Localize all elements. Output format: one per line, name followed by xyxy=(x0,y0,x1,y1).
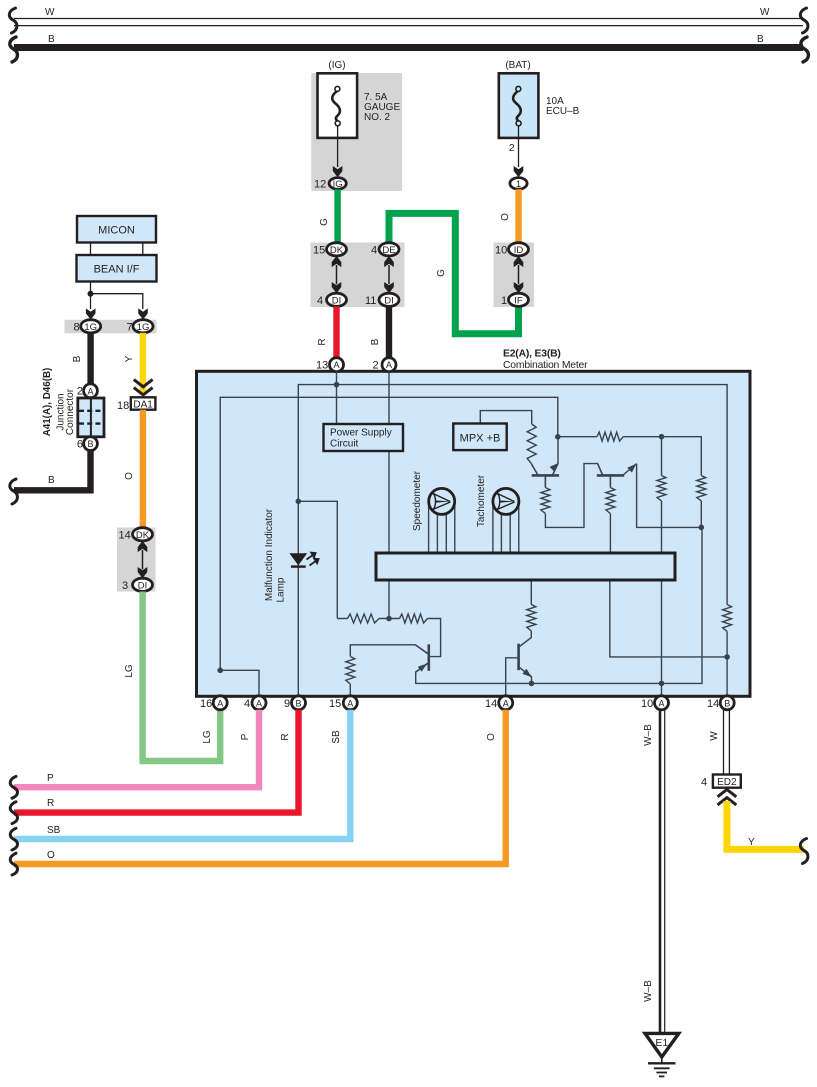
svg-text:P: P xyxy=(47,773,54,784)
wire R5 up to top node xyxy=(661,437,663,476)
svg-text:DK: DK xyxy=(136,530,150,541)
resistor R5 (10A upper) xyxy=(657,476,666,502)
svg-text:B: B xyxy=(757,34,764,45)
wire emitter rail right section xyxy=(532,527,703,683)
svg-text:DI: DI xyxy=(138,581,148,592)
svg-text:A: A xyxy=(217,698,223,708)
svg-text:IF: IF xyxy=(514,296,523,307)
resistor R11 (14B) xyxy=(723,605,732,632)
wire R7 to corner down xyxy=(623,437,701,476)
svg-text:B: B xyxy=(72,355,83,362)
svg-text:B: B xyxy=(724,698,730,708)
svg-text:E1: E1 xyxy=(655,1037,668,1049)
resistor R3 (15A) xyxy=(346,657,355,685)
wire B black to left edge xyxy=(14,451,91,491)
wire R red from 9B to left edge xyxy=(14,710,299,813)
wire O orange from terminal 1 to 10 ID xyxy=(515,189,521,243)
wire Y yellow from ED2 to right edge xyxy=(727,801,804,849)
svg-text:(IG): (IG) xyxy=(328,60,345,71)
pin terminal 14 A xyxy=(499,696,513,710)
resistor R7 (horizontal top) xyxy=(597,432,623,441)
svg-text:B: B xyxy=(48,34,55,45)
svg-text:15: 15 xyxy=(313,245,325,257)
arrow into terminal 1 xyxy=(514,166,524,177)
box BEAN I/F xyxy=(77,255,157,282)
svg-text:12: 12 xyxy=(314,179,326,191)
wire W left break curl xyxy=(9,8,17,33)
double chevron arrow into ED2 xyxy=(718,790,737,805)
svg-text:(BAT): (BAT) xyxy=(505,60,530,71)
svg-text:Y: Y xyxy=(124,355,135,362)
svg-text:2: 2 xyxy=(77,386,83,398)
wire O orange from 14A to left edge xyxy=(14,710,506,864)
wire SB light blue from 15A to left edge xyxy=(14,710,350,839)
svg-text:Power Supply: Power Supply xyxy=(330,428,392,439)
svg-text:4: 4 xyxy=(244,698,250,710)
transistor Q4 emitter wire down to 527 rail xyxy=(637,464,702,528)
svg-text:B: B xyxy=(370,338,381,345)
junction dot rail A x336 xyxy=(334,382,340,388)
terminal oval ID xyxy=(509,243,529,256)
junction dot Q3 emitter node xyxy=(555,434,561,440)
wire LED cathode down to pin 9B xyxy=(297,501,299,696)
svg-text:MICON: MICON xyxy=(98,225,135,237)
svg-text:ECU–B: ECU–B xyxy=(546,106,580,117)
svg-text:Circuit: Circuit xyxy=(330,439,359,450)
connector pass-through arrows DK-DI left xyxy=(138,541,148,578)
svg-text:1G: 1G xyxy=(84,322,97,333)
svg-text:A: A xyxy=(386,360,392,370)
svg-text:O: O xyxy=(124,472,135,480)
svg-text:O: O xyxy=(500,213,511,221)
wire B black 1G to A junction xyxy=(87,333,93,384)
wire LG light green DI to 16 A xyxy=(143,592,221,762)
transistor Q2 (NPN bottom mid) xyxy=(519,638,532,678)
svg-text:LG: LG xyxy=(124,664,135,678)
svg-text:A: A xyxy=(333,360,339,370)
junction dot Q2 emitter xyxy=(529,681,535,687)
svg-text:10: 10 xyxy=(641,698,653,710)
terminal oval IG xyxy=(329,178,346,190)
ground hatch xyxy=(648,1063,676,1076)
svg-text:B: B xyxy=(295,698,301,708)
svg-text:4: 4 xyxy=(371,245,377,257)
svg-text:1: 1 xyxy=(516,179,521,190)
svg-text:B: B xyxy=(48,475,55,486)
terminal oval 1G right xyxy=(133,320,153,333)
svg-text:SB: SB xyxy=(331,730,342,744)
svg-text:6: 6 xyxy=(77,439,83,451)
terminal oval DK xyxy=(327,243,347,256)
svg-text:MPX +B: MPX +B xyxy=(460,433,501,445)
resistor R8 (701 vertical) xyxy=(697,476,706,502)
svg-text:7: 7 xyxy=(127,322,133,334)
wire rail A top xyxy=(298,385,727,605)
wire B top bus (thick black) xyxy=(14,44,803,51)
terminal circle B junction xyxy=(84,437,98,451)
svg-text:E2(A), E3(B): E2(A), E3(B) xyxy=(503,349,561,360)
junction dot 10A rail crossing xyxy=(659,681,665,687)
LED D1 malfunction indicator lamp xyxy=(289,553,318,567)
svg-text:O: O xyxy=(47,850,55,861)
wire P break curl xyxy=(10,776,17,798)
svg-text:DE: DE xyxy=(382,245,395,256)
pin terminal 15 A xyxy=(343,696,357,710)
svg-text:ID: ID xyxy=(514,245,524,256)
terminal oval DI left-low xyxy=(133,578,153,591)
arrow into 12 IG xyxy=(333,166,343,177)
junction dot R1/R2 xyxy=(386,616,392,622)
transistor Q4 base chain xyxy=(609,476,611,488)
svg-text:11: 11 xyxy=(365,295,376,307)
svg-text:Tachometer: Tachometer xyxy=(476,474,487,527)
transistor Q3 collector diag wire xyxy=(532,464,538,474)
connector pass-through arrows ID-IF xyxy=(514,256,524,293)
junction dot xyxy=(88,291,94,297)
svg-text:W: W xyxy=(760,7,770,18)
wire 2A down through power supply to bus bar xyxy=(388,371,390,553)
fuse F2 10A ECU-B box xyxy=(499,73,539,138)
svg-text:9: 9 xyxy=(284,698,290,710)
svg-text:2: 2 xyxy=(373,360,379,372)
svg-text:14: 14 xyxy=(485,698,497,710)
wire R10 to bus bar xyxy=(609,514,611,554)
terminal oval IF xyxy=(509,293,529,306)
speedometer wires xyxy=(429,505,455,553)
svg-text:NO. 2: NO. 2 xyxy=(364,112,391,123)
transistor Q3 base chain to Q4 collector xyxy=(544,476,546,488)
svg-text:R: R xyxy=(47,798,54,809)
wire LED branch over to resistor chain xyxy=(298,501,337,618)
gauge tachometer xyxy=(493,488,519,514)
wire SB break curl xyxy=(10,828,17,850)
svg-text:W–B: W–B xyxy=(643,980,654,1002)
wire fuse F2 to terminal 1 xyxy=(518,126,520,167)
wire G green from IG to 15 DK xyxy=(334,189,340,243)
wire bus-bar drop from 2A line to R1R2 node xyxy=(388,580,390,619)
box MICON xyxy=(77,216,156,243)
junction dot 527 rail xyxy=(699,525,705,531)
connector gray block xyxy=(494,243,535,308)
wire pin 10A vertical xyxy=(661,501,663,696)
svg-text:R: R xyxy=(280,733,291,740)
svg-text:W–B: W–B xyxy=(643,724,654,746)
svg-text:B: B xyxy=(87,439,93,449)
svg-text:SB: SB xyxy=(47,825,61,836)
pin terminal 2 A xyxy=(382,358,396,372)
pin terminal 9 B xyxy=(292,696,306,710)
tachometer wires xyxy=(493,505,519,553)
wire W double line from 14B to ED2 xyxy=(724,710,730,775)
ground stub xyxy=(661,1057,663,1063)
double chevron arrow into DA1 xyxy=(134,380,153,395)
wire bus bottom to right rail xyxy=(610,580,727,657)
box MPX +B xyxy=(453,424,506,451)
wire Y break curl xyxy=(800,839,808,864)
svg-text:Speedometer: Speedometer xyxy=(412,470,423,531)
svg-text:A: A xyxy=(87,386,93,396)
pin terminal 13 A xyxy=(330,358,344,372)
svg-text:W: W xyxy=(45,7,55,18)
gauge speedometer xyxy=(429,488,455,514)
wire B black DI to 2 A xyxy=(386,307,392,360)
wire 13A down to power supply xyxy=(336,371,338,424)
svg-text:14: 14 xyxy=(119,530,131,542)
resistor R9 (Q3 base) xyxy=(541,488,550,514)
ground E1 triangle xyxy=(645,1033,679,1057)
wire O orange DA1 to 14 DK xyxy=(140,410,146,528)
junction dot 16A rail xyxy=(217,668,223,674)
transistor Q1 base wire from 15A resistor xyxy=(350,645,427,657)
svg-text:Lamp: Lamp xyxy=(276,577,287,602)
wire W top bus (double line) xyxy=(14,19,803,26)
svg-text:A: A xyxy=(256,698,262,708)
svg-text:R: R xyxy=(317,338,328,345)
wire R3 to pin 15A xyxy=(349,684,351,696)
wire Y yellow 1G to DA1 xyxy=(140,333,146,394)
connector box DA1 xyxy=(131,397,156,409)
terminal oval 1G left xyxy=(81,320,101,333)
wire R1 to node xyxy=(337,618,399,620)
terminal oval DK left xyxy=(133,528,153,541)
wire B right break curl xyxy=(801,37,809,62)
svg-text:ED2: ED2 xyxy=(717,777,737,788)
wire W right break curl xyxy=(800,8,808,33)
junction dot led branch xyxy=(296,499,302,505)
combination meter U1 body xyxy=(197,371,751,696)
svg-text:Connector: Connector xyxy=(65,388,76,435)
wire O break curl xyxy=(10,853,17,875)
svg-text:W: W xyxy=(709,731,720,741)
resistor R1 (led chain left) xyxy=(348,614,380,623)
wire B left break curl xyxy=(10,37,18,62)
terminal oval DI right xyxy=(379,293,399,306)
svg-text:G: G xyxy=(319,218,330,226)
transistor Q3 (rotated, under MPX resistor) xyxy=(532,463,559,488)
svg-text:2: 2 xyxy=(509,143,515,154)
arrow into 7 1G xyxy=(138,308,148,319)
wire node to R7 xyxy=(558,436,597,438)
svg-text:IG: IG xyxy=(333,179,343,190)
svg-text:LG: LG xyxy=(202,730,213,744)
fuse F1 7.5A GAUGE NO.2 box xyxy=(318,73,358,138)
wire B left break curl xyxy=(10,479,18,504)
svg-text:4: 4 xyxy=(701,777,707,789)
fuse F1 element xyxy=(332,86,340,125)
svg-text:DI: DI xyxy=(332,296,342,307)
wire fuse F1 to IG terminal xyxy=(337,126,339,167)
svg-text:Y: Y xyxy=(748,837,755,848)
wire BEAN to 1G terminals with junction xyxy=(91,282,143,310)
svg-text:8: 8 xyxy=(74,322,80,334)
transistor Q1 emitter wire to rail xyxy=(416,664,532,684)
box Power Supply Circuit xyxy=(324,424,404,451)
terminal oval 1 xyxy=(510,178,527,190)
svg-text:1G: 1G xyxy=(137,322,150,333)
svg-text:13: 13 xyxy=(316,360,328,372)
wire G green loop DE to IF xyxy=(389,213,519,333)
transistor Q3 emitter wire up to node xyxy=(553,437,558,475)
svg-text:DK: DK xyxy=(330,245,344,256)
wire MPX+B feed xyxy=(480,411,531,424)
arrow into 8 1G xyxy=(86,308,96,319)
svg-text:DA1: DA1 xyxy=(133,399,153,410)
svg-text:BEAN I/F: BEAN I/F xyxy=(94,264,140,276)
wire R2 to Q1 collector xyxy=(428,619,441,657)
pin terminal 4 A xyxy=(252,696,266,710)
svg-text:18: 18 xyxy=(117,400,129,412)
svg-text:1: 1 xyxy=(501,295,507,307)
svg-text:Malfunction Indicator: Malfunction Indicator xyxy=(264,508,275,601)
wire R8 to dot 527 xyxy=(700,501,702,527)
resistor R10 (Q4 base) xyxy=(606,488,615,514)
transistor Q2 base from pin 14A xyxy=(506,658,518,696)
svg-text:A: A xyxy=(347,698,353,708)
wires MICON to BEAN I/F xyxy=(90,243,92,255)
pin terminal 16 A xyxy=(213,696,227,710)
svg-text:3: 3 xyxy=(122,580,128,592)
transistor Q4 (rotated, right) xyxy=(597,464,637,488)
connector gray block xyxy=(311,243,405,308)
connector gray band 1G xyxy=(65,320,157,334)
wire R4 to bus bar xyxy=(530,580,532,605)
fuse F2 element xyxy=(513,86,521,125)
IG fuse gray background xyxy=(311,73,402,191)
resistor R4 (Q2 collector) xyxy=(527,605,536,632)
resistor R6 (MPX to Q3) xyxy=(527,424,536,464)
wire R break curl xyxy=(10,802,17,824)
transistor Q2 emitter to rail xyxy=(520,668,532,684)
svg-text:G: G xyxy=(436,269,447,277)
svg-text:4: 4 xyxy=(317,295,323,307)
svg-text:A41(A), D46(B): A41(A), D46(B) xyxy=(42,368,53,437)
svg-text:10: 10 xyxy=(495,245,507,257)
svg-text:A: A xyxy=(658,698,664,708)
junction connector J1 box xyxy=(78,398,104,437)
wire P pink from 4A to left edge xyxy=(14,710,259,787)
svg-text:A: A xyxy=(503,698,509,708)
wire R9 to Q4 collector xyxy=(545,464,602,528)
terminal circle A junction xyxy=(84,384,98,398)
connector pass-through arrows DK-DI xyxy=(332,256,342,293)
connector gray block DK/DI left xyxy=(117,528,156,592)
wire pin4A up-left to 16A rail xyxy=(220,670,259,696)
wire W-B double line from 10A to E1 xyxy=(660,710,665,1033)
pin terminal 14 B xyxy=(720,696,734,710)
resistor R2 (led chain right) xyxy=(400,614,428,623)
terminal oval DI left xyxy=(327,293,347,306)
svg-text:DI: DI xyxy=(384,296,394,307)
svg-text:14: 14 xyxy=(707,698,719,710)
svg-text:16: 16 xyxy=(200,698,212,710)
transistor Q2 collector chain to bus xyxy=(520,631,532,647)
svg-text:Combination Meter: Combination Meter xyxy=(503,360,588,371)
connector pass-through arrows DE-DI xyxy=(384,256,394,293)
pin terminal 10 A xyxy=(655,696,669,710)
terminal oval DE xyxy=(379,243,399,256)
svg-text:P: P xyxy=(240,733,251,740)
svg-text:O: O xyxy=(486,733,497,741)
wire rail B second xyxy=(220,397,558,670)
connector box ED2 xyxy=(713,775,741,788)
bus bar rectangle xyxy=(376,553,675,580)
transistor Q1 (PNP bottom left) xyxy=(415,644,428,672)
wire R11 to pin 14B xyxy=(726,632,728,697)
wire R red DI to 13 A xyxy=(333,307,339,360)
junction dot R7 right node xyxy=(659,434,665,440)
junction dot 14B rail xyxy=(724,654,730,660)
svg-text:15: 15 xyxy=(329,698,341,710)
